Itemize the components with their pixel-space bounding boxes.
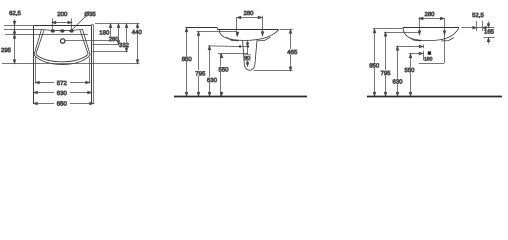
ext line left second	[4, 29, 42, 31]
svg-text:Ø35: Ø35	[84, 11, 96, 18]
svg-text:850: 850	[182, 56, 193, 63]
ext 280	[93, 44, 120, 46]
svg-text:630: 630	[392, 79, 403, 86]
80 box label	[244, 55, 250, 61]
dim 440	[137, 24, 139, 64]
dim 572	[36, 82, 90, 84]
svg-text:295: 295	[1, 47, 12, 54]
svg-text:180: 180	[99, 30, 110, 37]
svg-text:550: 550	[404, 67, 415, 74]
fixing dot A	[239, 45, 241, 47]
basin right rear edge	[91, 26, 93, 104]
wing right	[258, 37, 271, 41]
svg-text:80: 80	[244, 56, 250, 62]
fixing dot B	[247, 46, 249, 48]
ext line under 150	[419, 63, 444, 65]
svg-text:465: 465	[287, 49, 298, 56]
svg-text:280: 280	[109, 36, 120, 43]
svg-text:165: 165	[484, 28, 495, 35]
tap hole left	[51, 30, 54, 32]
right chamfer inner	[80, 30, 88, 54]
165 bottom line	[484, 37, 495, 39]
svg-text:550: 550	[218, 66, 229, 73]
280 dim (middle)	[237, 17, 262, 19]
rim line	[218, 29, 279, 31]
svg-text:630: 630	[57, 90, 68, 97]
wing right	[441, 38, 454, 41]
step	[217, 28, 219, 30]
svg-text:280: 280	[243, 10, 254, 17]
left chamfer outer	[34, 29, 42, 55]
550 ext	[218, 53, 248, 55]
52,5 ticks	[476, 21, 478, 31]
left chamfer inner	[36, 30, 44, 54]
550 dim	[220, 54, 222, 96]
corner ext vertical	[93, 25, 95, 104]
80 dim vertical	[247, 41, 249, 67]
underside profile	[219, 30, 278, 41]
rim ext to right	[461, 27, 494, 29]
465 ext top	[280, 29, 293, 31]
165 dim	[488, 22, 490, 28]
795 ext	[384, 32, 419, 34]
bowl inner arc	[36, 54, 88, 62]
ext 332	[93, 51, 128, 53]
ext 572 left	[35, 57, 37, 84]
svg-text:572: 572	[57, 80, 68, 87]
dim 630	[34, 92, 92, 94]
svg-text:630: 630	[207, 77, 218, 84]
630 ext	[208, 45, 248, 48]
550 dim	[410, 54, 412, 96]
right chamfer outer	[83, 29, 91, 55]
svg-text:52,5: 52,5	[472, 12, 484, 19]
795 dim	[385, 32, 387, 96]
back ledge / 850 ext	[186, 27, 218, 29]
ext line top-left	[4, 25, 33, 27]
label Ø35 leader	[72, 17, 86, 31]
bottom long ext line	[2, 63, 140, 65]
svg-text:200: 200	[57, 11, 68, 18]
svg-text:440: 440	[132, 29, 143, 36]
underside profile	[403, 28, 459, 41]
630 ext with arrow	[396, 46, 422, 48]
svg-text:150: 150	[424, 57, 433, 63]
465 dim	[290, 30, 292, 71]
630 dim	[397, 46, 399, 96]
shroud (semi-pedestal)	[243, 40, 257, 70]
tap hole right	[70, 30, 73, 32]
corner connector	[91, 24, 93, 26]
wing left	[409, 37, 421, 41]
dim 180	[110, 24, 112, 41]
280 dim line	[419, 18, 444, 20]
dim 332	[126, 24, 128, 52]
795 dim	[198, 32, 200, 96]
deck front line	[42, 30, 83, 31]
465 ext bottom	[254, 70, 293, 72]
dim 62,5	[14, 20, 16, 34]
630 dim	[209, 46, 211, 96]
svg-text:795: 795	[195, 70, 206, 77]
550 ext with arrow	[409, 53, 422, 55]
floor line	[367, 96, 502, 98]
150 vertical tick	[423, 51, 425, 61]
850 ext	[373, 28, 403, 30]
dim 650	[34, 103, 94, 105]
rim line	[403, 27, 459, 29]
svg-text:332: 332	[119, 42, 130, 49]
280 left vertical	[419, 17, 421, 35]
280 right vertical long	[444, 19, 446, 64]
basin top edge	[34, 25, 92, 27]
svg-text:795: 795	[380, 70, 391, 77]
ext top right	[95, 23, 140, 25]
bowl outer arc	[34, 55, 90, 65]
overflow hole	[61, 39, 65, 43]
svg-text:650: 650	[57, 100, 68, 107]
basin left rear edge	[33, 26, 35, 104]
rim lower line	[5, 34, 88, 36]
dim 280	[118, 24, 120, 45]
850 dim	[374, 29, 376, 96]
ext 180 (from overflow)	[65, 40, 112, 42]
850 dim	[186, 28, 188, 96]
svg-text:850: 850	[369, 63, 380, 70]
tap hole center	[61, 30, 64, 32]
dim 295	[13, 34, 16, 38]
svg-text:280: 280	[424, 11, 435, 18]
dim 200	[52, 22, 72, 24]
ext 572 right	[89, 57, 91, 84]
795 ext	[197, 31, 237, 33]
floor line	[174, 96, 307, 98]
svg-text:62,5: 62,5	[9, 10, 21, 17]
wing left	[227, 37, 239, 41]
fixing square	[428, 51, 431, 54]
